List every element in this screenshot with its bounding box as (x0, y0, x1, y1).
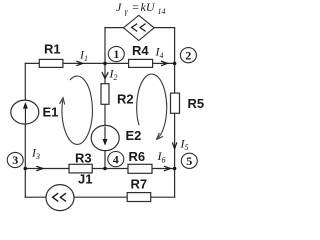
wire bottom right (R7 to bottom-right corner) (151, 196, 175, 198)
wire bottom-middle horizontal (R6 to right junction) (152, 168, 175, 170)
wire left vertical lower (E1 bottom to bottom-left corner) (24, 124, 26, 197)
current arrow I1 (76, 61, 83, 66)
current arrow I2 (102, 72, 108, 79)
svg-text:14: 14 (158, 7, 166, 16)
junction node4 dot (103, 167, 107, 171)
svg-text:J1: J1 (78, 172, 92, 187)
wire diamond left lead (105, 27, 124, 29)
wire bottom middle (J1 to R7) (74, 196, 127, 198)
wire bottom left (corner to J1) (25, 196, 46, 198)
resistor R7 (127, 193, 151, 202)
svg-text:R7: R7 (131, 177, 148, 192)
current arrow I6 (164, 166, 171, 171)
svg-text:J: J (116, 0, 122, 14)
junction node2 dot (173, 62, 177, 66)
source E1 (circle with up arrow) (11, 100, 39, 124)
resistor R1 (39, 59, 63, 67)
svg-text:R1: R1 (44, 42, 61, 57)
wire diamond right lead (154, 27, 175, 29)
svg-text:R5: R5 (188, 96, 205, 111)
loop current arrow right (clockwise ellipse arc) (137, 74, 167, 138)
current arrow I3 (36, 166, 43, 171)
resistor R4 (129, 59, 153, 67)
svg-text:kU: kU (141, 0, 156, 14)
svg-text:R6: R6 (129, 149, 146, 164)
node 4 circle (108, 152, 124, 167)
svg-text:5: 5 (186, 154, 192, 168)
current arrow I5 (172, 142, 177, 149)
loop current arrow left (clockwise ellipse arc) (62, 76, 92, 144)
svg-text:E2: E2 (126, 128, 142, 143)
svg-text:4: 4 (113, 152, 119, 166)
junction node5 dot (173, 167, 177, 171)
wire bottom-middle horizontal (node3 junction to R3) (25, 168, 69, 170)
node 3 circle (7, 152, 23, 167)
svg-text:2: 2 (185, 48, 191, 62)
svg-text:=: = (132, 0, 140, 14)
wire right vertical upper (diamond level to R5) (174, 28, 176, 94)
source E2 (circle with down arrow) (91, 125, 119, 150)
wire left vertical upper (corner to E1 top) (24, 63, 26, 100)
dependent source J_gamma diamond (124, 15, 155, 40)
svg-text:3: 3 (12, 153, 18, 167)
wire middle vertical top (diamond to node 1 junction) (104, 28, 106, 64)
svg-text:1: 1 (113, 47, 119, 61)
wire bottom-middle horizontal (R3 to R6) (92, 168, 128, 170)
node 5 circle (181, 153, 197, 168)
wire middle vertical (node1 junction to R2 top) (104, 63, 106, 83)
node 1 circle (108, 46, 124, 61)
resistor R3 (69, 164, 92, 173)
resistor R6 (128, 164, 152, 173)
resistor R5 (vertical) (171, 93, 180, 113)
wire top horizontal from left corner to right junction (25, 62, 174, 64)
svg-text:R2: R2 (117, 92, 134, 107)
wire right vertical lower (R5 through I5 to bottom corner) (174, 113, 176, 197)
source J1 (circle with chevrons) (46, 185, 74, 211)
junction node1 dot (103, 62, 107, 66)
wire middle vertical (E2 bottom to node4 junction) (104, 151, 106, 169)
svg-text:R3: R3 (75, 151, 92, 166)
wire middle vertical (R2 bottom to E2 top) (104, 104, 106, 125)
dependent source chevrons << (132, 24, 146, 32)
node 2 circle (180, 48, 196, 63)
resistor R2 (vertical) (101, 84, 109, 105)
svg-text:R4: R4 (132, 43, 149, 58)
current arrow I4 (161, 61, 168, 66)
junction node3 dot (24, 167, 28, 171)
svg-text:E1: E1 (43, 105, 59, 120)
